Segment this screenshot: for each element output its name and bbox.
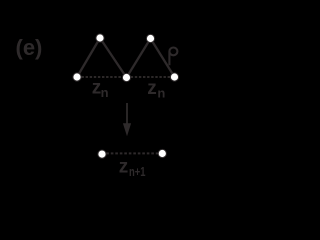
dashed line z_n segment (bottom of tents)	[82, 76, 84, 78]
dashed line z_n+1	[106, 152, 109, 154]
node renormalized left dot	[98, 150, 106, 158]
arrow (coarse-graining step)	[126, 103, 128, 125]
node bottom-left dot	[73, 73, 81, 81]
wire tent 2 left edge	[127, 39, 151, 78]
svg-text:n: n	[101, 85, 109, 100]
node renormalized right dot	[158, 149, 166, 157]
wire tent 2 right edge (rho bond)	[151, 39, 175, 78]
svg-text:z: z	[147, 78, 157, 99]
node bottom-right dot	[170, 73, 178, 81]
svg-text:(e): (e)	[16, 35, 43, 60]
label rho	[169, 48, 177, 66]
node top dot 1	[96, 34, 104, 42]
wire tent 1 left edge	[77, 38, 100, 77]
svg-text:n+1: n+1	[129, 164, 146, 179]
svg-text:z: z	[119, 157, 129, 178]
node bottom-middle dot	[122, 73, 130, 81]
node top dot 2	[146, 34, 154, 42]
wire tent 1 right edge	[100, 38, 127, 78]
svg-text:n: n	[157, 86, 165, 101]
